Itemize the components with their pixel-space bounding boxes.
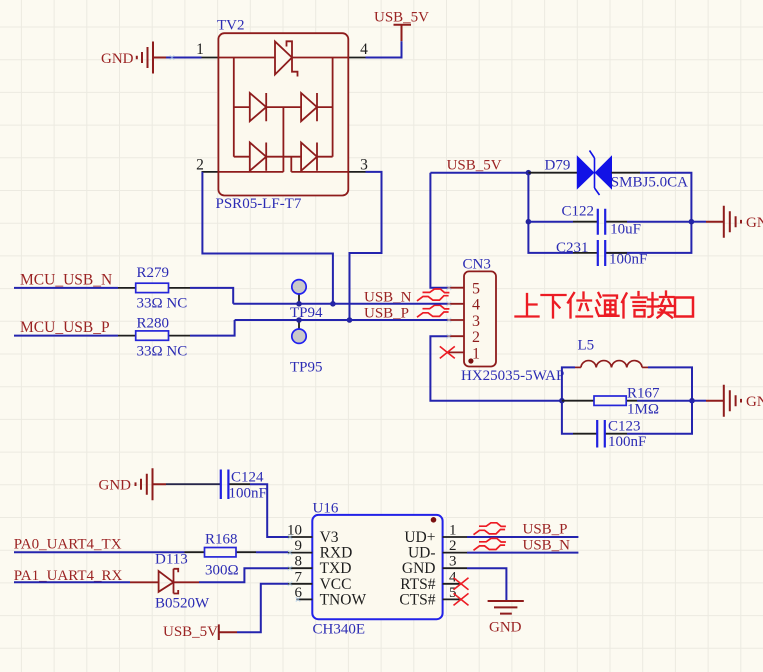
wire USB_P row: [235, 319, 448, 321]
capacitor C124: [221, 470, 250, 500]
pin 1 of U16 UD+: [404, 523, 467, 547]
svg-text:9: 9: [295, 538, 303, 554]
下: [542, 295, 566, 318]
wire R280 to USB_P row: [190, 320, 235, 336]
svg-text:1: 1: [472, 345, 480, 362]
svg-text:USB_5V: USB_5V: [447, 158, 502, 174]
svg-text:USB_5V: USB_5V: [374, 10, 429, 26]
svg-text:3: 3: [472, 313, 480, 330]
wire MCU_USB_P: [14, 335, 118, 337]
pin 4 of TV2: [348, 41, 368, 58]
svg-text:HX25035-5WAP: HX25035-5WAP: [461, 368, 564, 384]
svg-text:R167: R167: [627, 386, 660, 402]
svg-text:R280: R280: [137, 316, 170, 332]
svg-text:1: 1: [449, 523, 457, 539]
pin 4 of U16 RTS#: [400, 569, 460, 593]
wire D79 to right bus: [605, 173, 691, 253]
wire pin4 to USB_5V: [366, 41, 402, 57]
svg-text:1MΩ: 1MΩ: [627, 402, 659, 418]
TVS diode D-top inside TV2: [275, 41, 298, 76]
pin 10 of U16 V3: [287, 523, 339, 547]
svg-text:4: 4: [449, 569, 457, 585]
wire U16 pin3 to earth ground: [467, 568, 506, 601]
wire L5 block left vertical: [562, 367, 575, 400]
differential pair mark (USB_N): [417, 289, 449, 301]
wire right GND lead (lower): [692, 400, 706, 402]
junction TP95 on USB_P: [296, 317, 302, 323]
wire R279 to USB_N row: [190, 288, 233, 304]
wire L5 right: [648, 367, 692, 400]
diode row3-right inside TV2: [301, 143, 317, 171]
svg-text:USB_5V: USB_5V: [163, 624, 218, 640]
power port USB_5V (top): [374, 10, 429, 42]
pin 2 of TV2: [196, 157, 218, 174]
pin 6 of U16 TNOW: [295, 585, 367, 609]
power ground GND (upper right, clipped): [706, 206, 763, 238]
位: [568, 293, 592, 318]
resistor R280: [118, 331, 190, 340]
svg-text:33Ω NC: 33Ω NC: [137, 344, 188, 360]
pin 2 of CN3: [447, 329, 480, 346]
capacitor C123: [573, 420, 627, 448]
svg-text:GND: GND: [489, 620, 522, 636]
power ground GND (lower right, clipped): [706, 385, 763, 417]
svg-text:33Ω NC: 33Ω NC: [137, 296, 188, 312]
svg-text:1: 1: [196, 41, 204, 58]
svg-text:300Ω: 300Ω: [205, 562, 239, 578]
pin 1 of CN3: [447, 345, 480, 362]
wire USB_5V row to D79: [430, 172, 528, 174]
schottky diode D113: [130, 569, 199, 594]
capacitor C122: [573, 209, 627, 235]
svg-text:8: 8: [295, 554, 303, 570]
pin1 marker dot CN3: [468, 358, 473, 363]
wire C124 to U16 pin10: [250, 484, 288, 537]
pin 4 of CN3: [447, 297, 480, 314]
wire U16 pin1 USB_P: [467, 536, 578, 538]
svg-text:7: 7: [295, 569, 303, 585]
svg-text:TP94: TP94: [290, 305, 323, 321]
wire C123 right: [627, 401, 692, 434]
wire GND to C124: [166, 483, 220, 485]
resistor R168: [185, 548, 257, 557]
pin 3 of U16 GND: [402, 554, 467, 578]
junction TP94 on USB_N: [296, 301, 302, 307]
TVS array TV2 body: [218, 33, 348, 195]
svg-text:CTS#: CTS#: [399, 591, 435, 608]
TVS diode D79: [577, 151, 611, 196]
wire C122 left: [528, 221, 573, 223]
wire GND to TV2 pin1: [166, 57, 202, 59]
svg-text:GND: GND: [746, 394, 763, 410]
svg-text:PSR05-LF-T7: PSR05-LF-T7: [216, 196, 302, 212]
svg-text:UD+: UD+: [404, 529, 435, 546]
pin 1 of TV2: [196, 41, 218, 58]
svg-text:2: 2: [472, 329, 480, 346]
信: [622, 292, 647, 318]
svg-text:D113: D113: [155, 552, 188, 568]
svg-text:TP95: TP95: [290, 360, 323, 376]
svg-text:100nF: 100nF: [608, 434, 646, 450]
svg-text:TNOW: TNOW: [320, 591, 367, 608]
pin 5 of CN3: [447, 281, 480, 298]
svg-text:RXD: RXD: [320, 545, 353, 562]
junction L5 left: [559, 398, 565, 404]
compile marks CN3 pins: [447, 286, 451, 339]
pin 3 of CN3: [447, 313, 480, 330]
svg-text:4: 4: [472, 297, 480, 314]
pin 5 of U16 CTS#: [399, 585, 460, 609]
power port USB_5V (bottom): [163, 624, 237, 640]
junction TV2 pin3 branch on USB_P: [347, 317, 353, 323]
pin1 marker dot U16: [431, 517, 437, 523]
svg-text:UD-: UD-: [408, 545, 436, 562]
node pin1 compile mark: [170, 55, 174, 59]
口: [675, 298, 693, 317]
svg-text:CN3: CN3: [463, 257, 491, 273]
wire pin3 down to USB_P row: [350, 172, 382, 320]
resistor R279: [118, 283, 190, 292]
power ground GND (bottom left): [99, 468, 167, 500]
svg-text:C124: C124: [231, 470, 264, 486]
svg-text:SMBJ5.0CA: SMBJ5.0CA: [611, 175, 688, 191]
compile marks U16 left pins: [288, 535, 300, 602]
diode row2-right inside TV2: [301, 93, 317, 121]
svg-text:R279: R279: [137, 265, 170, 281]
上: [516, 294, 539, 317]
svg-text:C122: C122: [562, 204, 595, 220]
svg-text:USB_N: USB_N: [523, 538, 571, 554]
svg-text:PA0_UART4_TX: PA0_UART4_TX: [14, 537, 122, 553]
wire D113 to U16 pin8: [199, 568, 288, 582]
inductor L5: [575, 361, 648, 368]
TV2 internal wiring: [218, 58, 348, 172]
svg-text:100nF: 100nF: [609, 252, 647, 268]
svg-text:100nF: 100nF: [229, 486, 267, 502]
wire USB_5V to CN3 pin5: [430, 173, 447, 288]
svg-text:USB_P: USB_P: [523, 522, 568, 538]
svg-text:TV2: TV2: [217, 18, 245, 34]
diode row2-left inside TV2: [250, 93, 266, 121]
wire U16 pin2 USB_N: [467, 552, 578, 554]
svg-text:GND: GND: [746, 215, 763, 231]
differential pair mark (USB_P): [417, 305, 449, 317]
svg-text:2: 2: [449, 538, 457, 554]
no-ERC marker on CN3 pin1: [440, 346, 455, 358]
svg-text:5: 5: [472, 281, 480, 298]
test point TP95: [292, 320, 306, 343]
junction L5 right: [689, 398, 695, 404]
wire USB_N row: [233, 303, 447, 305]
svg-text:VCC: VCC: [320, 576, 352, 593]
svg-text:10uF: 10uF: [610, 222, 641, 238]
earth ground symbol (U16): [488, 601, 524, 636]
wire right GND lead (upper): [691, 221, 706, 223]
capacitor C231: [573, 240, 627, 266]
svg-text:RTS#: RTS#: [400, 576, 435, 593]
wire left cap bus vertical: [528, 173, 573, 253]
svg-text:D79: D79: [545, 158, 571, 174]
no-ERC marker U16 pin5: [454, 593, 469, 605]
svg-text:2: 2: [196, 157, 204, 174]
svg-text:GND: GND: [101, 51, 134, 67]
接: [648, 292, 675, 318]
svg-text:C123: C123: [608, 419, 641, 435]
svg-text:L5: L5: [578, 338, 595, 354]
resistor R167: [562, 396, 637, 405]
wire MCU_USB_N: [14, 287, 118, 289]
power ground GND (top left): [101, 42, 166, 74]
wire CN3 pin2 to filter row: [430, 336, 562, 401]
connector CN3 body: [464, 271, 496, 366]
pin 2 of U16 UD-: [408, 538, 467, 562]
junction left bus C122: [526, 219, 532, 225]
wire R168 to U16 pin9: [256, 551, 288, 553]
pin 7 of U16 VCC: [288, 569, 351, 593]
junction right bus C122: [689, 219, 695, 225]
svg-text:3: 3: [449, 554, 457, 570]
diode row3-left inside TV2: [250, 143, 266, 171]
wire D79 cathode lead: [612, 172, 641, 174]
wire D79 anode lead: [528, 172, 577, 174]
pin 3 of TV2: [348, 157, 368, 174]
wire PA1 to D113: [14, 581, 130, 583]
test point TP94: [292, 280, 306, 304]
differential pair mark (USB_P bottom): [474, 523, 506, 535]
svg-text:B0520W: B0520W: [155, 596, 210, 612]
通: [596, 293, 619, 316]
IC U16 body: [312, 515, 442, 619]
pin 9 of U16 RXD: [288, 538, 352, 562]
svg-text:GND: GND: [402, 560, 436, 577]
svg-text:V3: V3: [320, 529, 339, 546]
no-ERC marker U16 pin4: [454, 578, 469, 590]
wire PA0 to R168: [14, 551, 185, 553]
junction USB_5V / caps: [526, 170, 532, 176]
wire R167 right: [637, 400, 692, 402]
wire USB_5V to U16 pin7: [237, 584, 288, 632]
svg-text:MCU_USB_P: MCU_USB_P: [20, 319, 110, 336]
svg-text:MCU_USB_N: MCU_USB_N: [20, 272, 112, 289]
svg-text:4: 4: [360, 41, 368, 58]
wire pin2 down to USB_N row: [202, 172, 333, 304]
pin 8 of U16 TXD: [288, 554, 351, 578]
wire C122 right: [627, 221, 691, 223]
svg-text:TXD: TXD: [320, 560, 352, 577]
junction TV2 pin2 branch on USB_N: [330, 301, 336, 307]
svg-text:GND: GND: [99, 478, 132, 494]
svg-text:CH340E: CH340E: [313, 622, 366, 638]
svg-text:R168: R168: [205, 532, 238, 548]
label 上下位通信接口 (drawn strokes): [516, 292, 694, 318]
differential pair mark (USB_N bottom): [474, 538, 506, 550]
